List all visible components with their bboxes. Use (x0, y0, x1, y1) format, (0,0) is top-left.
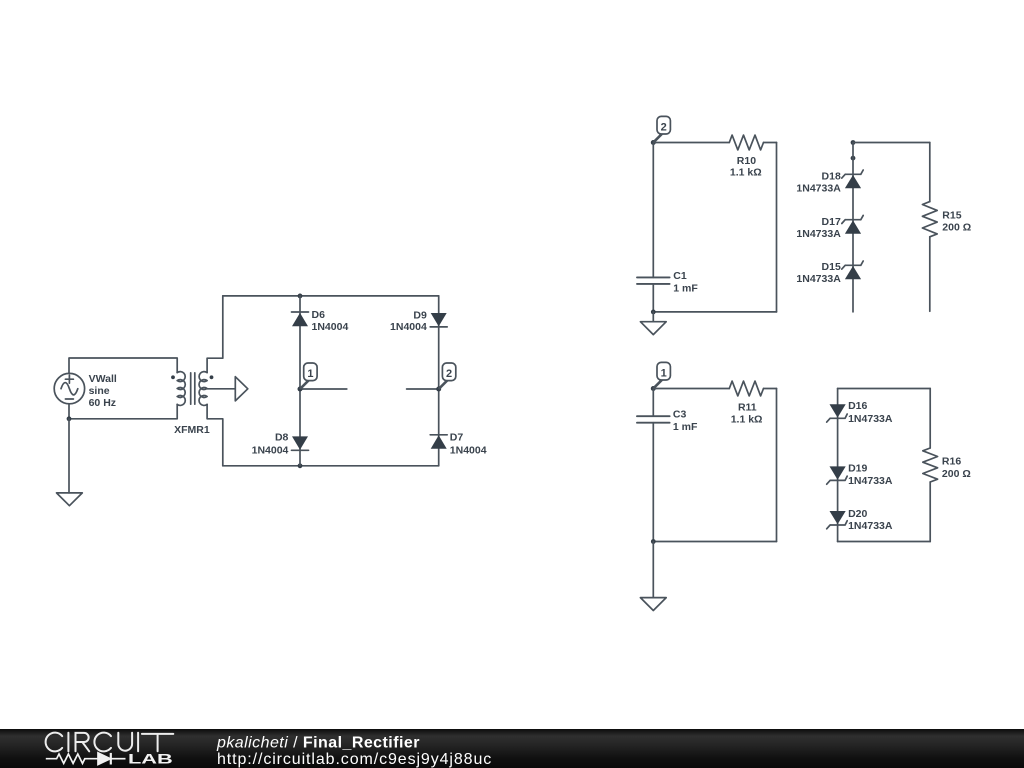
label VWall sine 60 Hz (89, 373, 117, 409)
wire bottom of R10 loop (653, 311, 776, 313)
transformer secondary phase dot (210, 375, 214, 379)
svg-text:1N4733A: 1N4733A (848, 413, 893, 425)
svg-text:1N4004: 1N4004 (252, 445, 289, 457)
junction dot C1 bottom (651, 310, 656, 315)
label C1 1 mF (673, 270, 698, 294)
svg-text:1N4733A: 1N4733A (796, 182, 841, 194)
svg-text:1 mF: 1 mF (673, 421, 698, 433)
svg-text:sine: sine (89, 385, 110, 397)
zener diode D19 (827, 466, 848, 484)
wire bottom row to primary (69, 404, 177, 418)
zener diode D17 (842, 215, 863, 233)
svg-text:2: 2 (446, 368, 452, 380)
resistor R16 (923, 389, 938, 542)
label D6 1N4004 (312, 309, 349, 333)
wire bottom of R11 loop (653, 541, 776, 543)
svg-text:D18: D18 (822, 171, 841, 183)
junction dot bridge bottom (298, 463, 303, 468)
wire secondary bottom to bridge (207, 404, 223, 465)
label R16 200 Ohm (942, 455, 971, 480)
svg-text:200 Ω: 200 Ω (942, 221, 971, 233)
label D16 1N4733A (848, 400, 893, 425)
wire right side of R10 loop (776, 143, 778, 312)
footer bar (0, 729, 1024, 768)
wire right side of R11 loop (776, 389, 778, 542)
node 2 flag in bridge (407, 363, 456, 392)
center tap arrow (207, 377, 248, 401)
junction dot at source bottom (67, 416, 72, 421)
svg-text:1.1 kΩ: 1.1 kΩ (731, 413, 763, 425)
svg-text:D19: D19 (848, 462, 867, 474)
junction dot zener column second (851, 156, 856, 161)
label C3 1 mF (673, 409, 698, 433)
CircuitLab logo wordmark CIRCUIT (46, 733, 174, 752)
transformer XFMR1 secondary coil (199, 372, 207, 406)
diode D9 (430, 313, 447, 327)
wire zener group left column (837, 389, 839, 542)
transformer XFMR1 primary coil (177, 372, 185, 406)
capacitor C1 (637, 143, 670, 312)
node 1 flag bottom right (651, 362, 671, 391)
svg-text:1N4733A: 1N4733A (848, 475, 893, 487)
label R15 200 Ohm (942, 210, 971, 234)
svg-text:1N4004: 1N4004 (312, 321, 349, 333)
wire bridge bottom (223, 465, 439, 467)
label R10 1.1 kOhm (730, 155, 762, 179)
svg-text:1.1 kΩ: 1.1 kΩ (730, 167, 762, 179)
svg-text:60 Hz: 60 Hz (89, 397, 116, 409)
svg-text:D6: D6 (312, 309, 326, 321)
diode D7 (430, 435, 447, 449)
svg-text:D17: D17 (822, 216, 841, 228)
svg-text:1: 1 (661, 368, 667, 380)
junction dot C3 bottom (651, 539, 656, 544)
wire source bottom (68, 404, 70, 419)
wire bridge top (223, 295, 439, 297)
svg-text:2: 2 (661, 122, 667, 134)
svg-text:D16: D16 (848, 400, 867, 412)
label D19 1N4733A (848, 462, 893, 487)
svg-text:R10: R10 (737, 155, 756, 167)
svg-text:C3: C3 (673, 409, 687, 421)
svg-text:R11: R11 (738, 401, 757, 413)
wire source top to primary (69, 358, 177, 374)
wire bridge left branch (299, 296, 301, 466)
zener diode D16 (827, 404, 848, 422)
capacitor C3 (637, 389, 670, 542)
svg-text:LAB: LAB (128, 751, 173, 767)
wire bridge right branch (438, 296, 440, 466)
svg-text:200 Ω: 200 Ω (942, 468, 971, 480)
label D17 1N4733A (796, 216, 841, 240)
node 1 flag in bridge (298, 363, 347, 392)
wire to ground (68, 419, 70, 493)
transformer XFMR1 core (191, 373, 195, 404)
svg-text:1N4733A: 1N4733A (796, 273, 841, 285)
svg-text:D15: D15 (822, 261, 841, 273)
ground GND2 (640, 312, 666, 335)
svg-text:VWall: VWall (89, 373, 117, 385)
svg-text:pkalicheti / Final_Rectifier: pkalicheti / Final_Rectifier (216, 735, 420, 752)
zener diode D20 (827, 511, 848, 529)
resistor R11 (653, 381, 776, 396)
CircuitLab logo resistor-diode squiggle (46, 753, 126, 765)
node 2 flag top right (651, 116, 671, 145)
zener diode D18 (842, 170, 863, 188)
junction dot bridge top (298, 294, 303, 299)
wire zener group bottom (838, 541, 931, 543)
svg-text:1N4004: 1N4004 (390, 321, 427, 333)
svg-text:http://circuitlab.com/c9esj9y4: http://circuitlab.com/c9esj9y4j88uc (217, 751, 492, 768)
junction dot zener column top (851, 140, 856, 145)
svg-text:D9: D9 (413, 309, 427, 321)
wire secondary top to bridge (207, 296, 223, 373)
svg-text:D20: D20 (848, 508, 867, 520)
svg-text:XFMR1: XFMR1 (174, 424, 210, 436)
svg-text:1N4733A: 1N4733A (796, 228, 841, 240)
diode D8 (292, 436, 309, 450)
svg-text:D8: D8 (275, 432, 289, 444)
svg-text:1N4733A: 1N4733A (848, 520, 893, 532)
svg-text:1N4004: 1N4004 (450, 445, 487, 457)
label D9 1N4004 (390, 309, 427, 333)
label R11 1.1 kOhm (731, 401, 763, 425)
ground GND3 (640, 542, 666, 611)
svg-text:D7: D7 (450, 432, 464, 444)
resistor R15 (922, 143, 937, 312)
label XFMR1 (174, 424, 210, 436)
label D15 1N4733A (796, 261, 841, 285)
wire zener top to R15 (853, 142, 930, 144)
diode D6 (292, 312, 309, 326)
svg-text:R16: R16 (942, 455, 961, 467)
transformer primary phase dot (171, 375, 175, 379)
svg-text:1 mF: 1 mF (673, 282, 698, 294)
label D8 1N4004 (252, 432, 289, 457)
svg-text:1: 1 (307, 368, 313, 380)
label D20 1N4733A (848, 508, 893, 532)
zener diode D15 (842, 261, 863, 279)
ground GND1 (57, 493, 83, 506)
voltage source V1 VWall (54, 373, 84, 403)
resistor R10 (653, 135, 776, 150)
wire zener group top (838, 388, 931, 390)
svg-text:C1: C1 (673, 270, 687, 282)
label D7 1N4004 (450, 432, 487, 457)
svg-text:R15: R15 (942, 210, 961, 222)
wire zener column (852, 143, 854, 312)
label D18 1N4733A (796, 171, 841, 195)
